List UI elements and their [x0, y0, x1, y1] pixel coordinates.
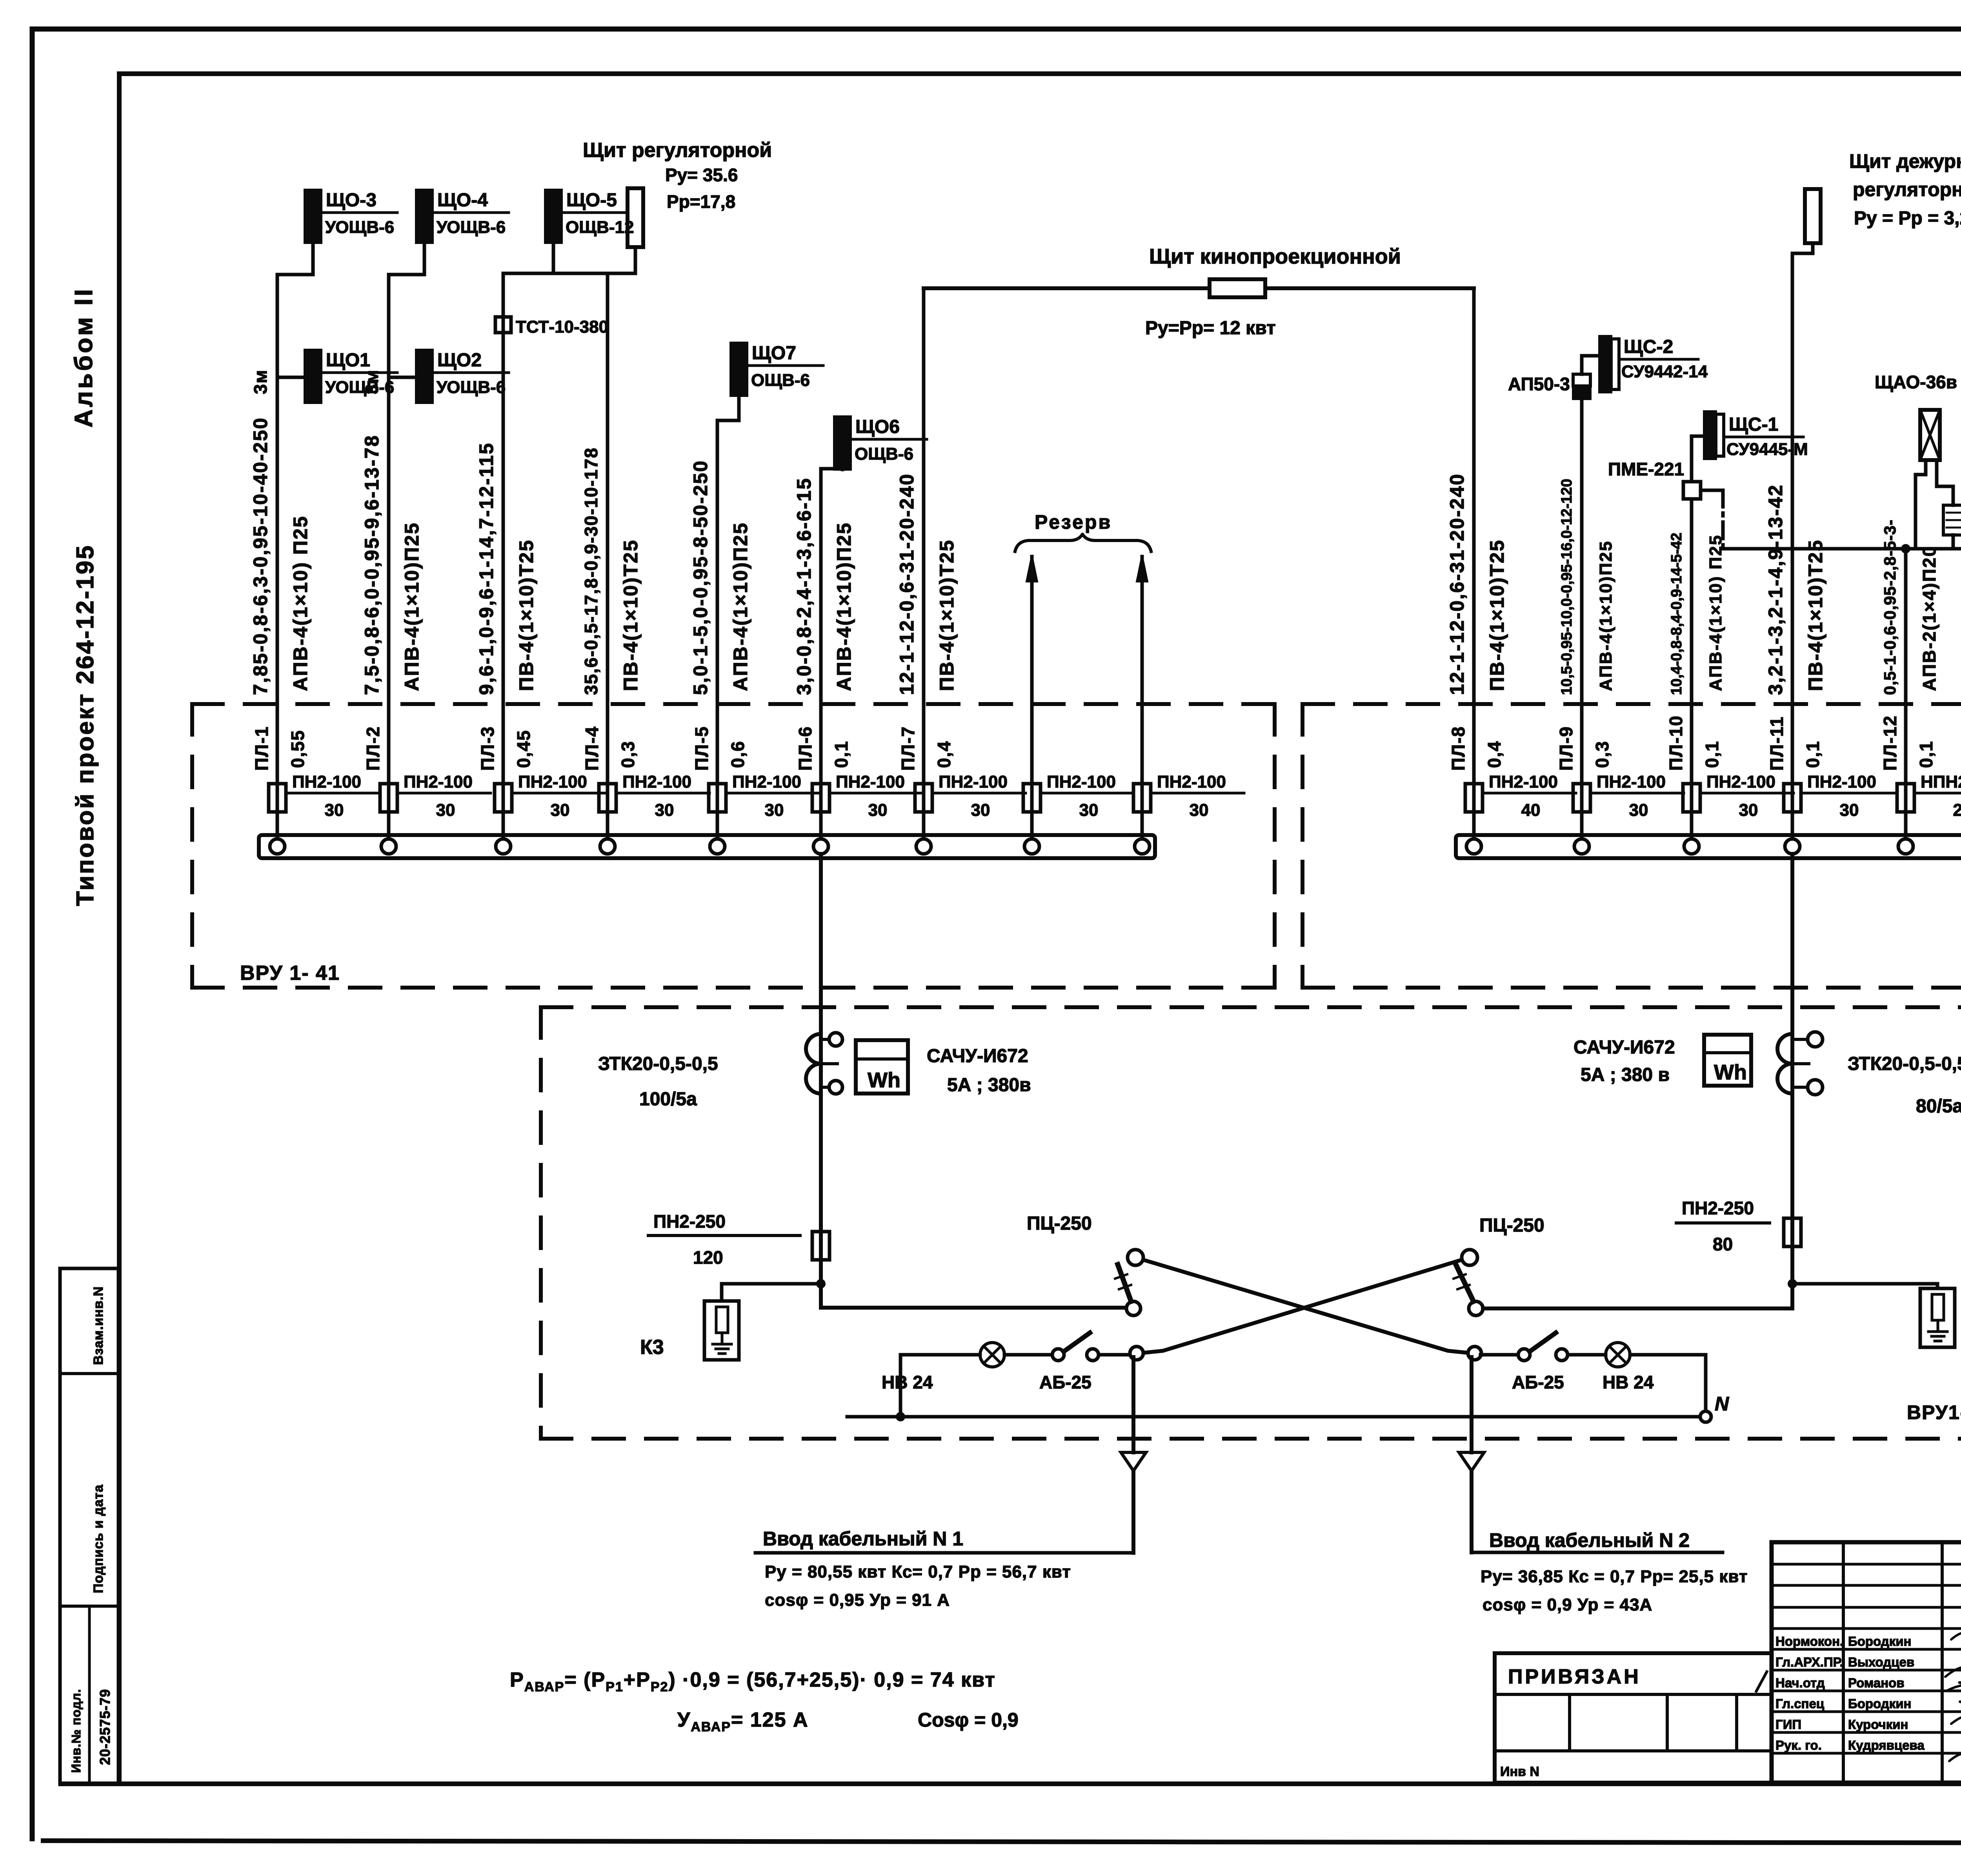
earthing device К3 left [816, 1279, 826, 1288]
svg-text:Кудрявцева: Кудрявцева [1848, 1738, 1925, 1752]
svg-text:Ру= 36,85 Кс = 0,7 Рр= 25,5: Ру= 36,85 Кс = 0,7 Рр= 25,5 квт [1481, 1567, 1748, 1586]
svg-text:АБ-25: АБ-25 [1039, 1372, 1091, 1392]
svg-text:Романов: Романов [1848, 1676, 1905, 1690]
svg-text:ОЩВ-6: ОЩВ-6 [855, 444, 913, 464]
svg-text:30: 30 [1079, 801, 1099, 820]
svg-text:30: 30 [325, 801, 344, 820]
svg-text:Инв.№ подл.: Инв.№ подл. [69, 1689, 83, 1773]
svg-text:Гл.АРХ.ПР.: Гл.АРХ.ПР. [1775, 1655, 1843, 1669]
svg-text:30: 30 [1629, 801, 1648, 820]
svg-text:ЩО-5: ЩО-5 [566, 190, 617, 211]
feeder ПЛ-4 wire [606, 273, 609, 784]
svg-text:7,85-0,8-6,3-0,95-10-40-250: 7,85-0,8-6,3-0,95-10-40-250 [249, 417, 271, 695]
svg-text:ВРУ1- 11: ВРУ1- 11 [1907, 1401, 1961, 1423]
svg-text:ГИП: ГИП [1775, 1717, 1801, 1732]
fuse ПЛ-2 ПН2-100/30 [380, 784, 397, 812]
bus node ПЛ-7 [916, 839, 931, 854]
panel ЩО-5 [545, 190, 562, 243]
svg-text:ПН2-100: ПН2-100 [1706, 772, 1775, 792]
changeover switch ПЦ-250 right half [1462, 1250, 1477, 1265]
svg-text:ЩО2: ЩО2 [437, 350, 482, 371]
svg-text:Ру=Рр= 12 квт: Ру=Рр= 12 квт [1145, 318, 1276, 338]
svg-text:ПМЕ-221: ПМЕ-221 [1608, 459, 1684, 479]
svg-text:Ру = Рр = 3,2 квт: Ру = Рр = 3,2 квт [1854, 208, 1961, 229]
svg-text:АПВ-4(1×10) П25: АПВ-4(1×10) П25 [289, 515, 311, 691]
svg-text:12-1-12-0,6-31-20-240: 12-1-12-0,6-31-20-240 [896, 473, 918, 695]
svg-text:ЩАО-36в: ЩАО-36в [1875, 372, 1957, 392]
bus bar left [259, 835, 1155, 858]
reserve feeder left 1 [1030, 557, 1034, 841]
wire riser ПЛ-3 and branch to Щит регуляторной [502, 273, 505, 841]
feeder ПЛ-2 wire [387, 377, 391, 784]
svg-text:Типовой проект 264-12-195: Типовой проект 264-12-195 [72, 544, 99, 906]
svg-text:20: 20 [1953, 801, 1961, 820]
svg-text:ВРУ 1- 41: ВРУ 1- 41 [240, 962, 340, 984]
svg-text:ПЛ-3: ПЛ-3 [477, 726, 498, 771]
feeder ПЛ-10 wire [1690, 499, 1694, 784]
svg-text:5А ; 380в: 5А ; 380в [947, 1075, 1031, 1095]
crossover wires [1143, 1260, 1468, 1353]
svg-text:ПЛ-4: ПЛ-4 [582, 726, 602, 771]
svg-text:Щит кинопроекционной: Щит кинопроекционной [1149, 245, 1401, 268]
svg-text:АП50-3: АП50-3 [1508, 374, 1570, 394]
panel ЩО6 [834, 417, 851, 469]
transformer ТСТ-10-380 [495, 317, 511, 333]
svg-text:N: N [1715, 1393, 1729, 1415]
wire riser ПЛ-11 to Щит дежурного освещения [1791, 253, 1794, 841]
svg-text:ПН2-100: ПН2-100 [1807, 772, 1876, 792]
svg-text:0,55: 0,55 [287, 730, 308, 768]
main wire ПЛ-11 down to switchgear [1790, 854, 1794, 1308]
svg-text:Бородкин: Бородкин [1848, 1634, 1911, 1649]
svg-text:Ввод кабельный N 2: Ввод кабельный N 2 [1489, 1529, 1690, 1551]
svg-text:ПН2-100: ПН2-100 [404, 772, 473, 792]
svg-text:ПН2-100: ПН2-100 [939, 772, 1008, 792]
svg-text:НВ 24: НВ 24 [882, 1372, 933, 1392]
svg-text:0,3: 0,3 [1592, 741, 1612, 768]
svg-text:3м: 3м [362, 369, 382, 394]
wire stub ПЛ-1 to ЩО1 [277, 376, 305, 379]
lamp circuit right [1468, 1346, 1481, 1360]
svg-text:ПВ-4(1×10)Т25: ПВ-4(1×10)Т25 [620, 539, 642, 691]
svg-text:АПВ-4(1×10)П25: АПВ-4(1×10)П25 [1596, 540, 1615, 691]
wire riser ПЛ-7 to Щит кинопроекционной [922, 288, 926, 841]
svg-text:10,4-0,8-8,4-0,9-14-5-42: 10,4-0,8-8,4-0,9-14-5-42 [1668, 533, 1685, 695]
svg-text:ПВ-4(1×10)Т25: ПВ-4(1×10)Т25 [936, 539, 958, 691]
feeder ПЛ-6 wire [819, 469, 823, 784]
bus node ПЛ-10 [1684, 839, 1699, 854]
svg-text:0,6: 0,6 [728, 741, 748, 768]
svg-text:ЗТК20-0,5-0,5: ЗТК20-0,5-0,5 [1848, 1054, 1961, 1074]
svg-text:ПЛ-2: ПЛ-2 [363, 726, 383, 771]
svg-text:12-1-12-0,6-31-20-240: 12-1-12-0,6-31-20-240 [1446, 473, 1468, 695]
current transformer ЗТК20 right [1777, 1034, 1792, 1094]
svg-text:ПРИВЯЗАН: ПРИВЯЗАН [1508, 1665, 1641, 1688]
svg-text:ПЦ-250: ПЦ-250 [1479, 1215, 1544, 1236]
feeder ПЛ-11 wire [1791, 253, 1794, 784]
bus node ПЛ-12 [1898, 839, 1913, 854]
svg-text:30: 30 [868, 801, 888, 820]
lamp branch drop left [899, 1355, 902, 1417]
svg-text:30: 30 [971, 801, 990, 820]
svg-text:ПН2-100: ПН2-100 [732, 772, 801, 792]
wire riser ПЛ-4 [606, 273, 609, 841]
svg-text:СУ9445-М: СУ9445-М [1726, 440, 1808, 459]
fuse ПЛ-12 НПН2-60/20 [1897, 784, 1914, 812]
dashed box ВРУ1-41 right [1302, 704, 1961, 988]
sidebar attribute table [60, 1268, 118, 1784]
svg-text:Рук. го.: Рук. го. [1775, 1738, 1822, 1752]
svg-text:30: 30 [765, 801, 784, 820]
panel ЩО-4 [416, 190, 433, 243]
fuse ПЛ-5 ПН2-100/30 [709, 784, 726, 812]
current transformer ЗТК20 left [806, 1034, 821, 1094]
svg-text:ПН2-100: ПН2-100 [1157, 772, 1226, 792]
main wire ПЛ-6 down to switchgear [819, 854, 823, 1308]
title block signature grid [1772, 1542, 1961, 1783]
meter Wh right [1704, 1035, 1751, 1086]
svg-text:Соsφ = 0,9: Соsφ = 0,9 [918, 1709, 1019, 1731]
dashed box ВРУ1-11 [541, 1007, 1961, 1439]
svg-text:НВ 24: НВ 24 [1603, 1372, 1654, 1392]
svg-text:Нач.отд: Нач.отд [1775, 1676, 1825, 1690]
feeder ПЛ-5 wire [716, 420, 719, 784]
feeder ПЛ-1 wire [276, 377, 279, 784]
title block ПРИВЯЗАН table [1495, 1653, 1772, 1783]
svg-text:0,4: 0,4 [1484, 741, 1504, 768]
svg-text:Бородкин: Бородкин [1848, 1696, 1911, 1711]
svg-text:УОЩВ-6: УОЩВ-6 [325, 218, 394, 237]
fuse ПЛ-11 ПН2-100/30 [1784, 784, 1801, 812]
svg-text:АПВ-4(1×10)П25: АПВ-4(1×10)П25 [401, 522, 423, 691]
panel Щит дежурного освещения symbol [1805, 189, 1821, 243]
svg-text:Рр=17,8: Рр=17,8 [667, 191, 735, 212]
svg-text:ПВ-4(1×10)Т25: ПВ-4(1×10)Т25 [1805, 539, 1826, 691]
svg-text:АПВ-4(1×10) П25: АПВ-4(1×10) П25 [1706, 534, 1725, 691]
meter Wh left [856, 1040, 908, 1094]
cable entry drop 2 [1470, 1357, 1473, 1452]
svg-text:10,5-0,95-10,0-0,95-16,0-12-12: 10,5-0,95-10,0-0,95-16,0-12-120 [1559, 479, 1575, 695]
heater element of ЩАО-36в [1935, 460, 1939, 486]
svg-text:80/5а: 80/5а [1916, 1096, 1961, 1117]
svg-text:80: 80 [1713, 1234, 1733, 1254]
svg-text:0,1: 0,1 [831, 741, 851, 768]
svg-text:30: 30 [1840, 801, 1859, 820]
svg-text:СУ9442-14: СУ9442-14 [1621, 362, 1708, 381]
svg-text:7,5-0,8-6,0-0,95-9,6-13-78: 7,5-0,8-6,0-0,95-9,6-13-78 [361, 435, 383, 695]
svg-text:САЧУ-И672: САЧУ-И672 [927, 1046, 1028, 1066]
svg-text:К3: К3 [640, 1336, 664, 1359]
svg-text:30: 30 [1190, 801, 1209, 820]
svg-text:ЩО-3: ЩО-3 [326, 190, 377, 211]
svg-text:0,1: 0,1 [1702, 741, 1722, 768]
panel ЩС-1 [1704, 411, 1716, 459]
signatures scribbles [1951, 1632, 1961, 1674]
svg-text:Инв N: Инв N [1500, 1764, 1539, 1779]
fuse ПЛ-4 ПН2-100/30 [599, 784, 616, 812]
svg-text:РАВАР= (РР1+РР2) ·0,9 = (56,7+: РАВАР= (РР1+РР2) ·0,9 = (56,7+25,5)· 0,9… [510, 1669, 996, 1694]
svg-text:ЩО7: ЩО7 [752, 343, 796, 364]
reserve feeder left 2 [1141, 557, 1144, 841]
svg-text:ОЩВ-6: ОЩВ-6 [751, 371, 810, 390]
svg-text:Гл.спец: Гл.спец [1775, 1696, 1824, 1711]
svg-text:Ру = 80,55 квт Кс= 0,7 Рр: Ру = 80,55 квт Кс= 0,7 Рр = 56,7 квт [765, 1562, 1071, 1581]
svg-text:30: 30 [655, 801, 674, 820]
svg-text:30: 30 [436, 801, 455, 820]
wire riser ПЛ-2 to ЩО-4 [387, 275, 391, 841]
svg-text:ПН2-100: ПН2-100 [622, 772, 691, 792]
wire riser ПЛ-6 to ЩО6 [819, 469, 823, 841]
svg-text:НПН2-60: НПН2-60 [1921, 772, 1961, 792]
svg-text:0,3: 0,3 [618, 741, 638, 768]
svg-text:ПВ-4(1×10)Т25: ПВ-4(1×10)Т25 [515, 539, 537, 691]
svg-text:АПВ-4(1×10)П25: АПВ-4(1×10)П25 [729, 522, 751, 691]
svg-text:100/5а: 100/5а [639, 1089, 697, 1110]
svg-text:УОЩВ-6: УОЩВ-6 [325, 378, 394, 397]
svg-text:0,5-1-0,6-0,95-2,8-5-3-: 0,5-1-0,6-0,95-2,8-5-3- [1881, 519, 1899, 695]
svg-text:АПВ-4(1×10)П25: АПВ-4(1×10)П25 [833, 522, 855, 691]
fuse-switch ЩАО-36в [1920, 410, 1940, 460]
svg-text:9,6-1,0-9,6-1-14,7-12-115: 9,6-1,0-9,6-1-14,7-12-115 [475, 442, 497, 695]
svg-text:40: 40 [1521, 801, 1541, 820]
svg-text:ЩС-1: ЩС-1 [1729, 414, 1778, 435]
brace left reserve [1015, 534, 1151, 551]
fuse ПН2-250 right [1784, 1218, 1801, 1246]
svg-text:ПН2-100: ПН2-100 [292, 772, 361, 792]
svg-text:ПН2-250: ПН2-250 [1682, 1198, 1754, 1218]
wire riser ПЛ-1 to ЩО-3 [276, 275, 279, 841]
svg-text:Щит дежурного освещения: Щит дежурного освещения [1849, 150, 1961, 172]
contactor ПМЕ-221 [1683, 482, 1701, 499]
svg-text:ПВ-4(1×10)Т25: ПВ-4(1×10)Т25 [1486, 539, 1508, 691]
svg-text:АПВ-2(1×4)П20: АПВ-2(1×4)П20 [1919, 545, 1939, 691]
svg-text:ПН2-100: ПН2-100 [1047, 772, 1116, 792]
svg-text:ПЛ-1: ПЛ-1 [251, 726, 272, 771]
svg-text:3м: 3м [250, 369, 271, 394]
svg-text:120: 120 [693, 1247, 723, 1268]
wire stub ПЛ-2 to ЩО2 [389, 376, 416, 379]
svg-text:ПН2-100: ПН2-100 [1597, 772, 1666, 792]
svg-text:САЧУ-И672: САЧУ-И672 [1574, 1037, 1675, 1058]
fuse ПЛ-10 ПН2-100/30 [1683, 784, 1700, 812]
svg-text:ЩС-2: ЩС-2 [1624, 337, 1673, 357]
svg-text:Курочкин: Курочкин [1848, 1717, 1908, 1732]
svg-text:ПЛ-8: ПЛ-8 [1448, 726, 1468, 771]
fuse ПЛ-8 ПН2-100/40 [1465, 784, 1483, 812]
svg-text:3,0-0,8-2,4-1-3,6-6-15: 3,0-0,8-2,4-1-3,6-6-15 [793, 477, 815, 695]
wire riser ПЛ-9 to ЩС-2 [1580, 399, 1584, 841]
feeder ПЛ-8 wire [1472, 288, 1476, 784]
feeder ПЛ-7 wire [922, 288, 926, 784]
svg-text:ПЛ-6: ПЛ-6 [795, 726, 815, 771]
svg-text:ПН2-100: ПН2-100 [836, 772, 905, 792]
svg-text:УАВАР= 125 А: УАВАР= 125 А [677, 1709, 809, 1734]
svg-text:ПЛ-5: ПЛ-5 [691, 726, 712, 771]
cable entry drop 1 [1131, 1357, 1135, 1452]
changeover switch ПЦ-250 left half [821, 1306, 1126, 1310]
svg-text:регуляторной: регуляторной [1853, 178, 1961, 200]
svg-text:ПЛ-7: ПЛ-7 [898, 726, 918, 771]
panel ЩО7 [731, 343, 747, 396]
bus node ПЛ-2 [381, 839, 396, 854]
neutral bus wire [847, 1415, 1706, 1419]
svg-text:ЩО1: ЩО1 [326, 350, 370, 371]
wire riser ПЛ-10 to ЩС-1 [1690, 499, 1694, 841]
bus node ПЛ-11 [1785, 839, 1800, 854]
svg-text:35,6-0,5-17,8-0,9-30-10-178: 35,6-0,5-17,8-0,9-30-10-178 [581, 447, 601, 695]
svg-text:ПЛ-11: ПЛ-11 [1766, 716, 1787, 771]
svg-text:УОЩВ-6: УОЩВ-6 [437, 378, 506, 397]
svg-text:Ру= 35.6: Ру= 35.6 [665, 165, 738, 185]
svg-text:ПЦ-250: ПЦ-250 [1027, 1213, 1092, 1234]
bottom contact left [1130, 1346, 1143, 1360]
feeder ПЛ-9 wire [1580, 399, 1584, 784]
svg-text:Нормокон.: Нормокон. [1775, 1634, 1843, 1649]
svg-text:Резерв: Резерв [1035, 511, 1112, 533]
svg-text:0,1: 0,1 [1916, 741, 1936, 768]
svg-text:ПН2-250: ПН2-250 [653, 1211, 726, 1232]
svg-text:ТСТ-10-380: ТСТ-10-380 [516, 317, 608, 337]
fuse ПЛ-3 ПН2-100/30 [495, 784, 512, 812]
panel ЩО1 [305, 350, 321, 403]
bus node ПЛ-3 [496, 839, 511, 854]
wire riser ПЛ-5 to ЩО7 [716, 420, 719, 841]
svg-text:ПЛ-10: ПЛ-10 [1666, 715, 1686, 771]
svg-text:Ввод кабельный N 1: Ввод кабельный N 1 [763, 1528, 963, 1550]
svg-text:20-2575-79: 20-2575-79 [97, 1689, 113, 1765]
svg-text:ПН2-100: ПН2-100 [1489, 772, 1558, 792]
svg-text:ЩО6: ЩО6 [855, 417, 900, 437]
earthing device К3 right [1788, 1279, 1797, 1288]
svg-text:УОЩВ-6: УОЩВ-6 [437, 218, 506, 237]
svg-text:АБ-25: АБ-25 [1512, 1372, 1564, 1392]
fuse on кинопроекционная link [1210, 279, 1265, 297]
bus node ПЛ-6 [813, 839, 828, 854]
svg-text:30: 30 [551, 801, 570, 820]
lamp circuit left [900, 1353, 980, 1357]
panel ЩО-3 [305, 190, 321, 243]
bus node ПЛ-5 [710, 839, 725, 854]
svg-text:ПЛ-9: ПЛ-9 [1556, 726, 1576, 771]
svg-text:соsφ = 0,9 Ур = 43А: соsφ = 0,9 Ур = 43А [1483, 1595, 1652, 1614]
svg-text:30: 30 [1739, 801, 1758, 820]
svg-text:0,1: 0,1 [1803, 741, 1823, 768]
svg-text:0,4: 0,4 [934, 741, 954, 768]
feeder ПЛ-12 wire [1904, 549, 1908, 784]
bus node ПЛ-9 [1574, 839, 1589, 854]
svg-text:Выходцев: Выходцев [1848, 1655, 1914, 1669]
svg-text:ЩО-4: ЩО-4 [437, 190, 488, 211]
panel ЩО2 [416, 350, 433, 403]
svg-text:5А ; 380 в: 5А ; 380 в [1581, 1064, 1670, 1085]
svg-text:Взам.инв.N: Взам.инв.N [91, 1286, 106, 1365]
fuse ПЛ-1 ПН2-100/30 [269, 784, 286, 812]
fuse ПН2-250 left [812, 1232, 830, 1260]
svg-text:ПЛ-12: ПЛ-12 [1880, 715, 1900, 771]
svg-text:Wh: Wh [868, 1068, 900, 1092]
svg-text:ОЩВ-12: ОЩВ-12 [566, 218, 634, 237]
branch wire дежурное освещение [1701, 489, 1723, 492]
wire riser ПЛ-12 to ЩАО-36в [1904, 549, 1908, 841]
wire Щит кинопроекционной top link [924, 286, 1474, 290]
svg-text:ПН2-100: ПН2-100 [518, 772, 587, 792]
dashed box ВРУ1-41 left [192, 704, 1275, 988]
svg-text:0,45: 0,45 [513, 730, 534, 768]
svg-text:соsφ = 0,95 Ур = 91 А: соsφ = 0,95 Ур = 91 А [765, 1590, 950, 1610]
breaker АП50-3 [1573, 374, 1590, 386]
fuse ПЛ-6 ПН2-100/30 [812, 784, 830, 812]
svg-text:5,0-1-5,0-0,95-8-50-250: 5,0-1-5,0-0,95-8-50-250 [689, 460, 711, 695]
panel Щит регуляторной symbol [628, 188, 643, 247]
bus node ПЛ-1 [270, 839, 285, 854]
neutral connection right [1704, 1355, 1708, 1412]
panel ЩС-2 [1599, 336, 1611, 392]
bus bar right [1456, 835, 1961, 858]
wire riser ПЛ-8 (кинопроекционная) [1472, 288, 1476, 841]
fuse ПЛ-7 ПН2-100/30 [915, 784, 932, 812]
fuse ПЛ-9 ПН2-100/30 [1573, 784, 1590, 812]
bus node ПЛ-4 [600, 839, 615, 854]
svg-text:Щит регуляторной: Щит регуляторной [583, 139, 772, 162]
bus node ПЛ-8 [1466, 839, 1481, 854]
feeder ПЛ-3 wire [502, 273, 505, 784]
svg-text:Подпись и дата: Подпись и дата [91, 1484, 106, 1593]
svg-text:3,2-1-3,2-1-4,9-13-42: 3,2-1-3,2-1-4,9-13-42 [1765, 484, 1786, 695]
svg-text:Wh: Wh [1714, 1061, 1747, 1084]
svg-text:ЗТК20-0,5-0,5: ЗТК20-0,5-0,5 [598, 1054, 718, 1074]
svg-text:Альбом II: Альбом II [69, 287, 98, 428]
